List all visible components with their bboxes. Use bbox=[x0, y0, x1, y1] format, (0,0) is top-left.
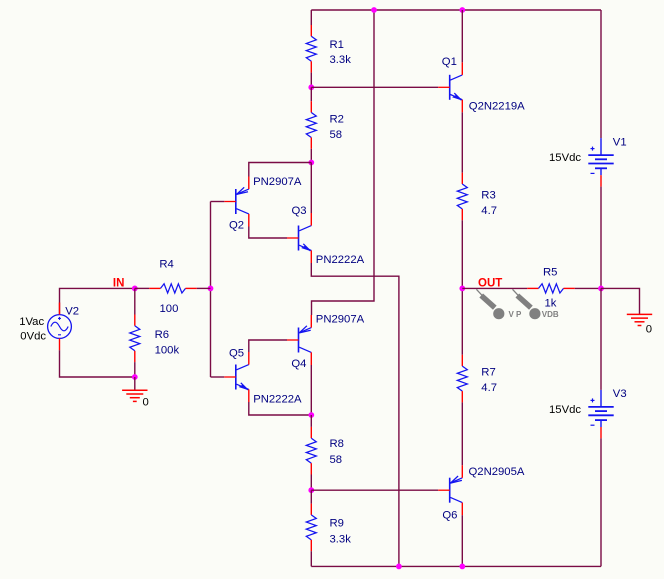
svg-text:4.7: 4.7 bbox=[481, 205, 497, 217]
svg-text:V3: V3 bbox=[613, 388, 627, 400]
label R9 value bbox=[330, 534, 352, 546]
wire node to Q2 emitter bbox=[249, 163, 311, 177]
transistor Q4 bbox=[287, 315, 311, 365]
label R1 value bbox=[330, 54, 352, 66]
label V2 bbox=[65, 306, 79, 318]
transistor Q1 bbox=[438, 62, 462, 112]
wire top rail to V1 bbox=[600, 10, 602, 138]
label R7 bbox=[481, 366, 495, 378]
label R4 value bbox=[160, 303, 179, 315]
wire gnd stem left bbox=[134, 377, 136, 390]
wire V2 top bbox=[60, 288, 135, 314]
source V3 battery bbox=[588, 390, 613, 439]
label R2 bbox=[330, 114, 344, 126]
svg-text:OUT: OUT bbox=[478, 277, 502, 289]
svg-text:3.3k: 3.3k bbox=[330, 534, 352, 546]
wire V2 bottom bbox=[60, 350, 135, 377]
wire middle rail bbox=[312, 10, 375, 315]
transistor Q2 bbox=[224, 177, 249, 227]
label Q3 bbox=[292, 205, 307, 217]
wire Q1 emitter to R3 bbox=[461, 112, 463, 172]
label R8 value bbox=[330, 454, 343, 466]
label V1 value 15Vdc bbox=[549, 152, 581, 164]
svg-text:0: 0 bbox=[646, 323, 652, 335]
label V2 0Vdc bbox=[20, 330, 46, 342]
label Q4 type PN2907A bbox=[316, 314, 365, 326]
wire R5 to right rail bbox=[575, 287, 601, 289]
label R5 bbox=[543, 267, 557, 279]
label R2 value bbox=[330, 129, 343, 141]
wire IN to R6 bbox=[134, 288, 136, 314]
label Q2 type PN2907A bbox=[253, 176, 302, 188]
svg-text:IN: IN bbox=[113, 277, 125, 289]
svg-text:Q2N2905A: Q2N2905A bbox=[469, 466, 525, 478]
svg-text:3.3k: 3.3k bbox=[330, 54, 352, 66]
wire Q3 emitter down bbox=[311, 263, 399, 566]
wire top rail to R1 bbox=[310, 10, 312, 25]
label R6 bbox=[155, 329, 169, 341]
resistor R5 bbox=[527, 284, 575, 293]
svg-text:PN2907A: PN2907A bbox=[253, 176, 302, 188]
label Q4 bbox=[291, 358, 306, 370]
svg-text:R1: R1 bbox=[330, 39, 344, 51]
label R9 bbox=[330, 518, 344, 530]
svg-text:Q2N2219A: Q2N2219A bbox=[469, 101, 525, 113]
svg-text:VDB: VDB bbox=[542, 310, 559, 319]
wire base rail bbox=[210, 202, 212, 378]
svg-text:100k: 100k bbox=[155, 345, 180, 357]
label IN bbox=[113, 277, 125, 289]
wire R4 to base rail bbox=[197, 287, 211, 289]
transistor Q3 bbox=[287, 213, 311, 263]
resistor R2 bbox=[306, 101, 316, 149]
wire Q2 collector to Q3 base bbox=[249, 227, 287, 239]
wire R3 to OUT bbox=[461, 220, 463, 288]
svg-text:1k: 1k bbox=[545, 298, 557, 310]
svg-text:V P: V P bbox=[509, 310, 523, 319]
svg-text:R6: R6 bbox=[155, 329, 169, 341]
node OUT bbox=[459, 286, 465, 292]
svg-text:Q3: Q3 bbox=[292, 205, 307, 217]
svg-text:1Vac: 1Vac bbox=[19, 316, 44, 328]
label OUT bbox=[478, 277, 502, 289]
node gnd left bbox=[132, 374, 138, 380]
svg-text:R7: R7 bbox=[481, 366, 495, 378]
probe VP marker bbox=[476, 289, 504, 319]
svg-text:Q5: Q5 bbox=[229, 348, 244, 360]
label gnd right 0 bbox=[646, 323, 652, 335]
label VP bbox=[509, 310, 523, 319]
wire top rail to Q1 collector bbox=[461, 10, 463, 62]
label Q6 type Q2N2905A bbox=[469, 466, 525, 478]
label VDB bbox=[542, 310, 559, 319]
node top rail Q1 bbox=[459, 7, 465, 13]
label R4 bbox=[159, 259, 173, 271]
ground right bbox=[627, 314, 652, 325]
svg-text:15Vdc: 15Vdc bbox=[549, 404, 581, 416]
wire OUT to R5 bbox=[462, 287, 527, 289]
wire node to Q3 collector bbox=[310, 163, 312, 214]
resistor R8 bbox=[306, 427, 316, 475]
probe VDB marker bbox=[513, 289, 541, 319]
node Q4-Q5-R8 bbox=[308, 412, 314, 418]
wire node to R8 bbox=[310, 415, 312, 427]
label R5 value bbox=[545, 298, 557, 310]
svg-text:Q2: Q2 bbox=[229, 220, 244, 232]
svg-text:PN2222A: PN2222A bbox=[253, 394, 302, 406]
label Q5 type PN2222A bbox=[253, 394, 302, 406]
svg-text:0: 0 bbox=[143, 397, 149, 409]
resistor R6 bbox=[130, 315, 140, 363]
wire R1 to node bbox=[310, 73, 312, 88]
node bottom rail mid bbox=[396, 564, 402, 570]
wire node to gnd right bbox=[601, 288, 640, 314]
wire node to V3 bbox=[600, 288, 602, 390]
label gnd left 0 bbox=[143, 397, 149, 409]
wire OUT to R7 bbox=[461, 288, 463, 354]
svg-text:V2: V2 bbox=[65, 306, 79, 318]
resistor R3 bbox=[457, 173, 467, 221]
node bottom rail Q6 bbox=[459, 564, 465, 570]
node middle rail top bbox=[371, 7, 377, 13]
wire Q6 collector to bottom rail bbox=[461, 515, 463, 566]
node IN bbox=[132, 286, 138, 292]
label Q1 bbox=[442, 56, 457, 68]
svg-text:R8: R8 bbox=[330, 438, 344, 450]
wire R1R2 node to Q1 base bbox=[311, 86, 438, 88]
svg-text:R9: R9 bbox=[330, 518, 344, 530]
svg-text:0Vdc: 0Vdc bbox=[20, 330, 46, 342]
svg-text:4.7: 4.7 bbox=[481, 382, 497, 394]
svg-text:Q6: Q6 bbox=[442, 510, 457, 522]
svg-text:R5: R5 bbox=[543, 267, 557, 279]
wire V3 to bottom rail bbox=[600, 438, 602, 566]
wire R2 to node bbox=[310, 149, 312, 163]
source V1 battery bbox=[588, 138, 613, 187]
label R8 bbox=[330, 438, 344, 450]
wire IN to R4 bbox=[135, 287, 149, 289]
wire Q4 collector down bbox=[310, 365, 312, 415]
resistor R7 bbox=[457, 355, 467, 403]
label R1 bbox=[330, 39, 344, 51]
label R6 value bbox=[155, 345, 180, 357]
transistor Q6 bbox=[438, 465, 462, 515]
label V3 value 15Vdc bbox=[549, 404, 581, 416]
label V1 bbox=[613, 137, 627, 149]
svg-text:Q4: Q4 bbox=[291, 358, 306, 370]
resistor R1 bbox=[306, 25, 316, 73]
svg-text:R3: R3 bbox=[481, 190, 495, 202]
svg-text:Q1: Q1 bbox=[442, 56, 457, 68]
svg-text:58: 58 bbox=[330, 129, 343, 141]
svg-text:R2: R2 bbox=[330, 114, 344, 126]
label V3 bbox=[613, 388, 627, 400]
wire node to Q6 base bbox=[311, 489, 438, 491]
resistor R4 bbox=[149, 284, 197, 293]
svg-text:PN2907A: PN2907A bbox=[316, 314, 365, 326]
wire node to R9 bbox=[310, 490, 312, 503]
wire node to R2 bbox=[310, 87, 312, 101]
wire R6 to gnd node bbox=[134, 362, 136, 377]
wire Q5 emitter to node bbox=[249, 402, 311, 415]
wire Q2 base bbox=[211, 201, 225, 203]
label R3 value bbox=[481, 205, 497, 217]
resistor R9 bbox=[306, 504, 316, 552]
svg-text:100: 100 bbox=[160, 303, 179, 315]
svg-text:V1: V1 bbox=[613, 137, 627, 149]
label R7 value bbox=[481, 382, 497, 394]
wire top rail bbox=[311, 9, 601, 11]
node R1-R2 junction bbox=[308, 84, 314, 90]
wire bottom rail bbox=[311, 565, 601, 567]
wire V1 to node bbox=[600, 187, 602, 289]
source V2 bbox=[48, 303, 72, 351]
label Q6 bbox=[442, 510, 457, 522]
ground left bbox=[122, 390, 147, 401]
label V2 1Vac bbox=[19, 316, 44, 328]
node R2-Q3 junction bbox=[308, 160, 314, 166]
label Q5 bbox=[229, 348, 244, 360]
wire R8 to node bbox=[310, 475, 312, 491]
transistor Q5 bbox=[224, 352, 249, 402]
svg-text:R4: R4 bbox=[159, 259, 173, 271]
label Q3 type PN2222A bbox=[316, 254, 365, 266]
label Q2 bbox=[229, 220, 244, 232]
wire Q5 collector to Q4 base bbox=[249, 340, 287, 352]
wire R9 to bottom rail bbox=[310, 551, 312, 566]
svg-text:58: 58 bbox=[330, 454, 343, 466]
wire R7 to Q6 emitter bbox=[461, 402, 463, 465]
node R8-R9-Q6 bbox=[308, 487, 314, 493]
node right rail bbox=[598, 286, 604, 292]
node base rail bbox=[208, 286, 214, 292]
label R3 bbox=[481, 190, 495, 202]
wire Q5 base bbox=[211, 376, 225, 378]
svg-text:PN2222A: PN2222A bbox=[316, 254, 365, 266]
label Q1 type Q2N2219A bbox=[469, 101, 525, 113]
svg-text:15Vdc: 15Vdc bbox=[549, 152, 581, 164]
